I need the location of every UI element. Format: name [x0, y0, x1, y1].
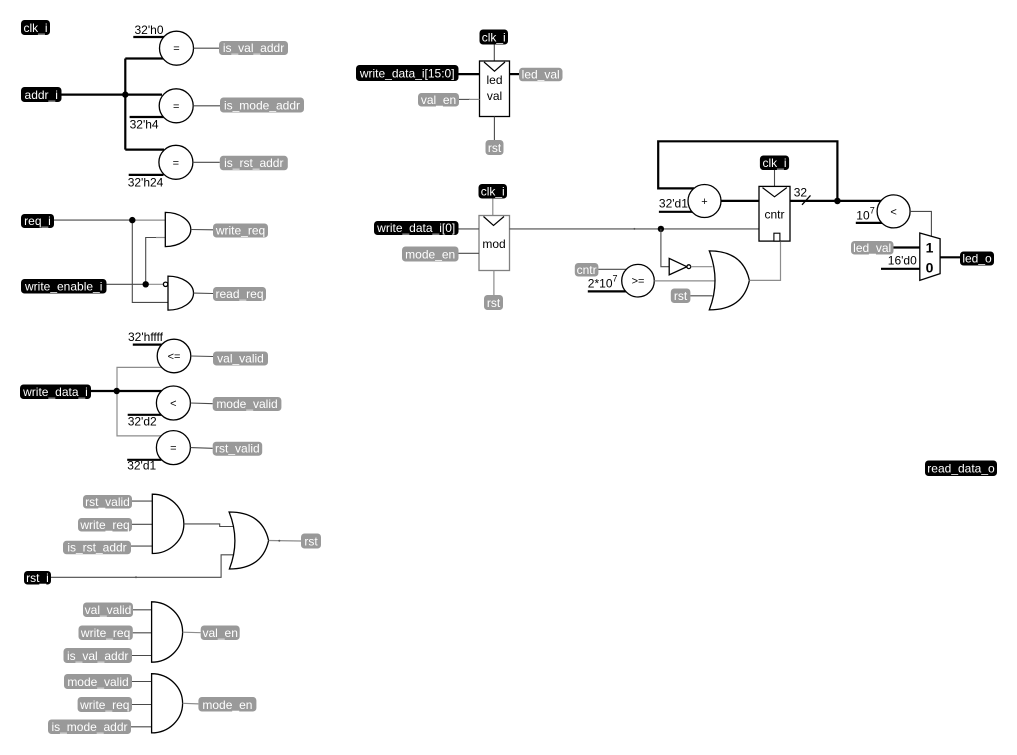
svg-text:+: + [701, 196, 707, 208]
wire val_valid to AND [133, 609, 152, 611]
and-gate rst AND3 [152, 494, 184, 553]
wire val_en to led val [459, 98, 470, 100]
wire LE output [191, 355, 213, 358]
wire write_req to AND [132, 523, 152, 525]
net label is_rst_addr (source) [63, 541, 131, 555]
svg-text:rst_valid: rst_valid [85, 495, 130, 509]
wire mode_valid to AND [132, 681, 152, 683]
svg-text:32'd1: 32'd1 [127, 459, 156, 473]
svg-text:=: = [173, 101, 179, 113]
inverter bubble on read gate input [163, 282, 167, 286]
comparator EQ3 is_rst_addr [159, 145, 193, 179]
svg-text:mode_valid: mode_valid [67, 675, 128, 689]
comparator LE val_valid [157, 339, 191, 373]
net label mode_valid [213, 397, 282, 411]
wire GE output to OR [654, 280, 714, 282]
svg-text:write_req: write_req [215, 224, 265, 238]
svg-text:=: = [170, 443, 176, 455]
svg-text:mode_en: mode_en [405, 247, 455, 261]
wire mod output to cntr enable [510, 228, 760, 230]
net label is_mode_addr [220, 98, 304, 113]
wire rst_valid to AND [132, 500, 152, 502]
constant 32'd2 [128, 415, 162, 429]
wire write_enable_i to junction [107, 283, 146, 285]
and-gate val_en AND3 [152, 602, 183, 662]
net label rst (led val) [486, 140, 504, 155]
wire cntr label to GE [598, 268, 627, 270]
svg-text:led_val: led_val [853, 241, 891, 255]
input port write_data_i[0] [374, 221, 459, 235]
net label mode_en (output) [198, 697, 256, 712]
svg-text:<: < [170, 398, 176, 410]
svg-text:clk_i: clk_i [762, 156, 786, 170]
svg-text:=: = [173, 157, 179, 169]
wire write_enable to inverted input [146, 283, 164, 285]
svg-text:32'h24: 32'h24 [128, 176, 164, 190]
wire led_val to mux (bus) [894, 246, 920, 248]
subcircuit box led val [480, 61, 510, 117]
wire clk to cntr [774, 170, 776, 186]
input port clk_i (top-left) [21, 20, 50, 35]
wire write_data branch up to LE [117, 367, 163, 391]
net label read_req [213, 287, 266, 301]
svg-text:10: 10 [856, 209, 870, 223]
svg-text:32'hffff: 32'hffff [128, 330, 164, 344]
constant 32'hffff [128, 330, 164, 345]
wire EQ2 output [193, 105, 220, 107]
svg-text:rst_valid: rst_valid [215, 442, 260, 456]
svg-text:mod: mod [482, 237, 505, 251]
comparator LT (led blink) [877, 195, 910, 228]
wire write_req to AND [132, 704, 152, 706]
constant 2*10^7 [588, 274, 626, 292]
input port addr_i [21, 87, 62, 102]
wire clk to mod box [492, 199, 494, 216]
comparator EQ2 is_mode_addr [159, 89, 193, 123]
node rst wire vertex [278, 540, 280, 542]
wire cntr output (bus) [790, 200, 881, 202]
wire LT output to mux select [910, 211, 931, 236]
svg-text:val_en: val_en [203, 626, 238, 640]
svg-text:32'h4: 32'h4 [130, 118, 159, 132]
net label rst_valid [213, 442, 263, 456]
svg-text:val_valid: val_valid [217, 352, 264, 366]
wire addr_i branch vertical (bus) [124, 59, 126, 150]
input port req_i [21, 214, 54, 228]
svg-text:led_o: led_o [962, 252, 992, 266]
svg-text:is_mode_addr: is_mode_addr [224, 98, 300, 112]
net label is_mode_addr (source) [48, 720, 131, 735]
wire branch to EQ3 [125, 149, 164, 151]
net label rst (mod) [484, 295, 503, 310]
input port write_data_i [20, 385, 91, 400]
bus width slash [802, 195, 811, 204]
wire EQ1 output [194, 47, 220, 49]
svg-text:<: < [890, 206, 896, 218]
inverter (enable invert) [669, 258, 690, 275]
svg-text:cntr: cntr [577, 263, 597, 277]
output port led_o [960, 252, 994, 266]
wire write AND output [191, 229, 213, 231]
net label led_val [519, 68, 563, 82]
svg-text:<=: <= [168, 351, 181, 363]
svg-text:>=: >= [632, 276, 645, 288]
wire write_req to AND [133, 632, 152, 634]
svg-text:write_data_i: write_data_i [22, 385, 88, 399]
svg-text:is_val_addr: is_val_addr [223, 41, 284, 55]
svg-text:val_en: val_en [421, 93, 456, 107]
node cntr output junction [834, 198, 841, 205]
input port write_enable_i [21, 279, 107, 294]
comparator GE [622, 264, 655, 297]
svg-text:0: 0 [926, 260, 934, 276]
svg-text:mode_en: mode_en [202, 698, 252, 712]
svg-text:32: 32 [794, 185, 808, 199]
wire inverter output to OR [691, 266, 713, 268]
svg-text:rst: rst [674, 289, 688, 303]
svg-text:2*10: 2*10 [588, 277, 613, 291]
svg-text:val_valid: val_valid [85, 603, 132, 617]
wire rst label to OR [690, 295, 712, 297]
wire mode_en to mod [459, 252, 480, 254]
wire junction down to inverter [661, 229, 669, 267]
wire EQ output [190, 447, 212, 450]
register box cntr [759, 186, 790, 241]
net label is_val_addr [219, 41, 288, 55]
wire mode AND3 output [183, 702, 199, 705]
svg-text:is_rst_addr: is_rst_addr [224, 156, 283, 170]
svg-text:32'h0: 32'h0 [135, 23, 164, 37]
svg-text:rst: rst [488, 141, 502, 155]
input port clk_i (cntr) [760, 156, 789, 171]
arst notch on cntr [774, 233, 780, 241]
svg-text:val: val [487, 89, 502, 103]
wire OR2 output to rst label [269, 540, 301, 543]
svg-text:7: 7 [613, 274, 618, 284]
wire EQ3 output [193, 161, 220, 163]
wire addr_i to junction (bus) [62, 93, 126, 95]
output port read_data_o [925, 461, 997, 477]
wire AND3 output to OR [184, 524, 234, 527]
svg-text:32'd1: 32'd1 [659, 197, 688, 211]
svg-text:1: 1 [926, 239, 934, 255]
wire stub into AND write bottom input [156, 237, 166, 239]
constant 16'd0 [881, 254, 920, 269]
net label is_val_addr (source) [64, 648, 133, 663]
net label rst (source, counter) [671, 289, 691, 304]
svg-text:write_data_i[0]: write_data_i[0] [376, 221, 455, 235]
node addr_i junction [122, 91, 128, 97]
wire OR3 output to cntr arst [749, 242, 780, 281]
wire stub val_en into box [469, 98, 480, 100]
wire val AND3 output [183, 631, 201, 634]
wire write_data_i[0] to mod [459, 228, 480, 230]
wire led val rst port [493, 117, 495, 141]
svg-text:clk_i: clk_i [481, 185, 505, 199]
wire mod rst port [493, 271, 495, 296]
net label val_valid [213, 352, 268, 366]
node write_data junction [114, 388, 120, 394]
and-gate mode_en AND3 [152, 674, 183, 733]
constant 32'd1 [127, 459, 161, 473]
wire junction to LT (bus) [117, 390, 162, 392]
constant 32'h4 [130, 117, 164, 132]
input port clk_i (mod) [479, 184, 508, 199]
mux led_o [920, 233, 940, 280]
node wire vertex on mod output [633, 228, 635, 230]
svg-text:led: led [486, 73, 502, 87]
svg-text:read_data_o: read_data_o [927, 462, 995, 476]
and-gate write_req [165, 212, 191, 246]
svg-text:32'd2: 32'd2 [128, 415, 157, 429]
svg-text:write_req: write_req [79, 698, 129, 712]
or-gate rst OR2 [229, 512, 269, 569]
wire is_rst_addr to AND [131, 545, 152, 547]
node mod output junction [658, 226, 664, 232]
svg-text:write_data_i[15:0]: write_data_i[15:0] [359, 67, 455, 81]
wire write_data_i[15:0] to led val (bus) [459, 73, 480, 75]
svg-text:clk_i: clk_i [482, 30, 506, 44]
svg-text:clk_i: clk_i [23, 21, 47, 35]
svg-text:7: 7 [870, 206, 875, 216]
svg-text:=: = [173, 43, 179, 55]
wire junction to AND write top input [132, 219, 165, 221]
net label rst_valid (source) [83, 495, 132, 509]
adder plus-circle [688, 185, 721, 218]
net label rst (output of OR) [301, 534, 321, 549]
or-gate counter reset OR3 [709, 251, 749, 310]
wire rst_i to OR [51, 555, 234, 578]
net label write_req (source) [78, 697, 132, 712]
svg-text:is_val_addr: is_val_addr [67, 649, 128, 663]
wire is_mode_addr to AND [131, 726, 152, 728]
wire write_enable branch up to AND write [146, 238, 157, 285]
svg-text:cntr: cntr [764, 208, 784, 222]
svg-text:is_rst_addr: is_rst_addr [67, 541, 126, 555]
wire read AND output [194, 292, 214, 294]
svg-text:read_req: read_req [215, 287, 263, 301]
svg-text:rst: rst [304, 534, 318, 548]
svg-text:write_enable_i: write_enable_i [24, 280, 102, 294]
net label led_val (source, mux) [851, 241, 894, 255]
node rst_i vertex [135, 576, 137, 578]
svg-text:16'd0: 16'd0 [888, 254, 917, 268]
subcircuit box mod [479, 216, 510, 271]
wire req_i to junction [54, 219, 132, 221]
svg-text:write_req: write_req [80, 626, 130, 640]
net label mode_valid (source) [64, 674, 132, 689]
wire adder output to cntr (bus) [721, 200, 759, 202]
wire write_data branch down to EQ [117, 391, 162, 436]
wire req branch down [132, 220, 168, 302]
input port write_data_i[15:0] [356, 65, 459, 81]
svg-text:mode_valid: mode_valid [216, 397, 277, 411]
wire feedback loop (bus) [658, 141, 837, 201]
svg-text:write_req: write_req [79, 518, 129, 532]
net label val_valid (source) [83, 603, 133, 618]
net label val_en (source) [418, 93, 459, 107]
comparator LT mode_valid [156, 386, 190, 420]
net label cntr (source) [575, 263, 599, 277]
svg-text:led_val: led_val [522, 68, 560, 82]
svg-text:rst: rst [487, 296, 501, 310]
and-gate read_req [168, 276, 194, 310]
svg-text:rst_i: rst_i [26, 571, 49, 585]
svg-text:req_i: req_i [24, 214, 51, 228]
wire clk to led val box [493, 45, 495, 62]
constant 32'h0 [133, 23, 164, 37]
wire junction to EQ2 [125, 93, 162, 95]
wire branch to EQ1 [125, 57, 164, 59]
wire mux output to led_o (bus) [940, 256, 960, 258]
node write_enable junction [143, 281, 149, 287]
node req_i junction [129, 217, 135, 223]
svg-text:is_mode_addr: is_mode_addr [51, 720, 127, 734]
net label write_req [213, 224, 268, 238]
wire write_data_i to junction (bus) [91, 390, 117, 392]
constant 32'h24 [128, 175, 164, 190]
wire is_val_addr to AND [132, 655, 152, 657]
input port rst_i [24, 571, 51, 585]
input port clk_i (led val) [480, 30, 509, 45]
constant 10^7 [856, 206, 882, 223]
svg-text:addr_i: addr_i [25, 88, 58, 102]
wire LT output [190, 402, 212, 405]
net label is_rst_addr [220, 156, 288, 171]
wire led_val output (bus) [510, 73, 520, 75]
net label write_req (source) [79, 626, 133, 641]
constant 32'd1 (adder) [659, 197, 693, 212]
net label val_en (output) [201, 626, 240, 641]
net label write_req (source) [78, 518, 132, 532]
net label mode_en (source) [402, 247, 459, 262]
comparator EQ1 is_val_addr [160, 31, 194, 65]
comparator EQ rst_valid [156, 431, 190, 465]
